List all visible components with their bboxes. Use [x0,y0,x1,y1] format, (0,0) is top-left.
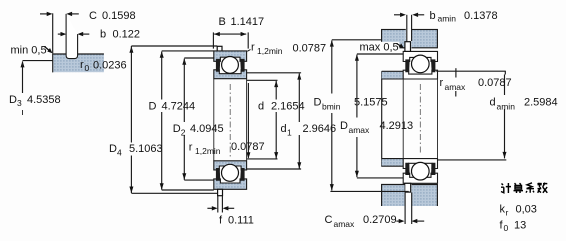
svg-text:D: D [314,96,322,108]
svg-text:D: D [149,100,157,112]
d_amin stem and arrow [504,75,506,96]
dimension d top line [247,79,278,81]
bore silhouette lines [213,79,215,161]
C_amax arrows [396,220,400,222]
D_amax stem and arrows [355,54,359,61]
svg-text:b: b [100,28,106,40]
upper right shield [240,59,244,72]
detail block left edge [52,53,54,72]
dimension D4 stem and arrows [129,46,133,53]
svg-text:C: C [89,10,97,22]
svg-text:amax: amax [445,82,467,92]
b_amin extension lines [406,15,408,43]
lower right shield [240,168,244,181]
lower snap ring [218,189,223,195]
right centerline [419,84,421,155]
centerline left view [229,84,231,157]
lower left shield [216,168,220,181]
svg-text:0.1598: 0.1598 [102,10,136,22]
dimension C [40,13,49,15]
detail block top edge [53,53,104,55]
bottom shaft shoulder [382,159,404,167]
svg-text:max 0,5: max 0,5 [360,42,399,54]
label max 0,5 [358,42,400,52]
svg-text:4.5358: 4.5358 [27,94,61,106]
svg-text:amin: amin [438,14,457,24]
svg-text:B: B [219,16,226,28]
D_bmin stem and arrows [330,40,334,47]
svg-text:4.7244: 4.7244 [162,100,196,112]
dimension D stem and arrows [160,51,164,58]
svg-text:0.1378: 0.1378 [464,10,498,22]
D_bmin bottom line [330,190,408,192]
right upper ball [412,55,430,73]
upper snap ring [217,46,222,51]
D3 centerline dash [22,110,24,118]
dimension B line and arrows [214,33,246,35]
right upper right shield [431,59,435,72]
dimension D2 bottom line [184,179,214,181]
dimension d stem and arrows [274,81,278,88]
dimension f arrows [207,207,212,209]
right face silhouette lines [402,79,404,159]
svg-text:1.1417: 1.1417 [231,16,265,28]
housing bottom left block [382,185,405,207]
top shaft shoulder [382,71,404,79]
svg-text:1: 1 [287,127,292,137]
dimension D top line [162,50,214,52]
upper outer ring [214,51,247,61]
upper inner ring [214,70,247,79]
svg-text:C: C [325,214,333,226]
svg-text:0: 0 [85,63,90,73]
r 1,2min upper leader [247,50,250,52]
dimension D4 bottom line [131,192,217,194]
svg-text:d: d [258,100,264,112]
svg-text:0.0236: 0.0236 [93,60,127,72]
svg-text:0.122: 0.122 [113,28,141,40]
svg-text:0.0787: 0.0787 [478,77,512,89]
svg-text:D: D [173,123,181,135]
dimension D bottom line [162,189,214,191]
svg-text:2: 2 [181,127,186,137]
dimension d1 bottom line [247,168,301,170]
r_amax tick [455,68,457,77]
svg-text:amax: amax [349,125,371,135]
dimension d1 top line [247,72,302,74]
dimension d_amin top line [436,70,506,72]
dimension b_amin [394,14,402,16]
upper left shield [216,59,220,72]
right upper snap ring [405,42,411,52]
snap ring groove slot [67,53,78,58]
right upper outer ring [403,51,437,61]
right lower ball [412,162,430,180]
svg-text:bmin: bmin [322,101,341,111]
dimension B extension lines [212,32,214,48]
svg-text:d: d [281,123,287,135]
max 0,5 leader arrow [397,44,402,47]
svg-text:r: r [80,59,84,71]
dimension D_amax top line [357,53,403,55]
svg-text:4.2913: 4.2913 [380,120,414,132]
svg-text:0,03: 0,03 [516,204,537,216]
svg-text:0.2709: 0.2709 [363,214,397,226]
svg-text:d: d [490,96,496,108]
right upper left shield [405,59,409,72]
shaft shoulder face line [381,71,383,166]
arrow D3 [21,61,25,68]
C extension line (ring face) [52,13,54,53]
dimension D4 top line [131,45,217,47]
svg-text:r: r [440,77,444,89]
svg-text:4: 4 [117,147,122,157]
dimension D_bmin top line [332,39,382,41]
svg-text:r: r [251,42,255,54]
d_amin bottom line [438,159,507,161]
dimension D2 stem and arrows [182,58,186,65]
svg-text:13: 13 [514,219,526,231]
lower ball [222,164,239,181]
svg-text:b: b [430,10,436,22]
svg-text:0: 0 [504,223,509,233]
svg-text:1,2min: 1,2min [195,146,221,156]
right upper inner ring [403,70,437,79]
svg-text:amin: amin [497,101,516,111]
D_amax bottom line [357,177,403,179]
svg-text:r: r [189,142,193,154]
right lower right shield [431,163,435,175]
label 计算系数 (hand drawn strokes) [501,183,547,193]
dimension C_amax extension lines [404,193,406,225]
housing snap ring groove slot [406,29,412,49]
svg-text:D: D [340,120,348,132]
svg-text:D: D [9,94,17,106]
right view lower bore line [382,158,438,160]
dimension f extension lines [217,196,219,213]
svg-text:r: r [506,208,509,218]
right lower snap ring [405,183,411,192]
svg-text:0.0787: 0.0787 [293,42,327,54]
svg-text:D: D [109,143,117,155]
right view upper bore line [382,78,438,80]
svg-text:amax: amax [334,219,356,229]
right lower outer ring [403,173,437,183]
groove bottom D3 line [23,60,53,62]
dimension D2 top line [184,57,214,59]
svg-text:1,2min: 1,2min [257,46,283,56]
right lower left shield [405,163,409,175]
dimension d1 stem and arrows [297,73,301,80]
svg-text:4.0945: 4.0945 [190,123,224,135]
upper ball [222,57,239,74]
svg-text:0.111: 0.111 [228,215,254,227]
svg-text:min 0,5: min 0,5 [11,45,47,57]
right lower inner ring [403,159,437,169]
svg-text:2.5984: 2.5984 [524,96,558,108]
detail ring block [53,54,104,73]
lower inner ring [214,161,247,170]
housing bottom right block [412,185,438,207]
svg-text:5.1063: 5.1063 [129,143,163,155]
svg-text:5.1575: 5.1575 [354,96,388,108]
svg-text:2.9646: 2.9646 [303,123,337,135]
housing top block [382,30,438,48]
svg-text:3: 3 [17,98,22,108]
lower outer ring [214,179,247,189]
min 0,5 leader arrow [45,47,52,53]
dimension d bottom line [247,158,278,160]
r 1,2min lower stem and arrow [247,83,249,158]
dimension b [58,33,62,35]
